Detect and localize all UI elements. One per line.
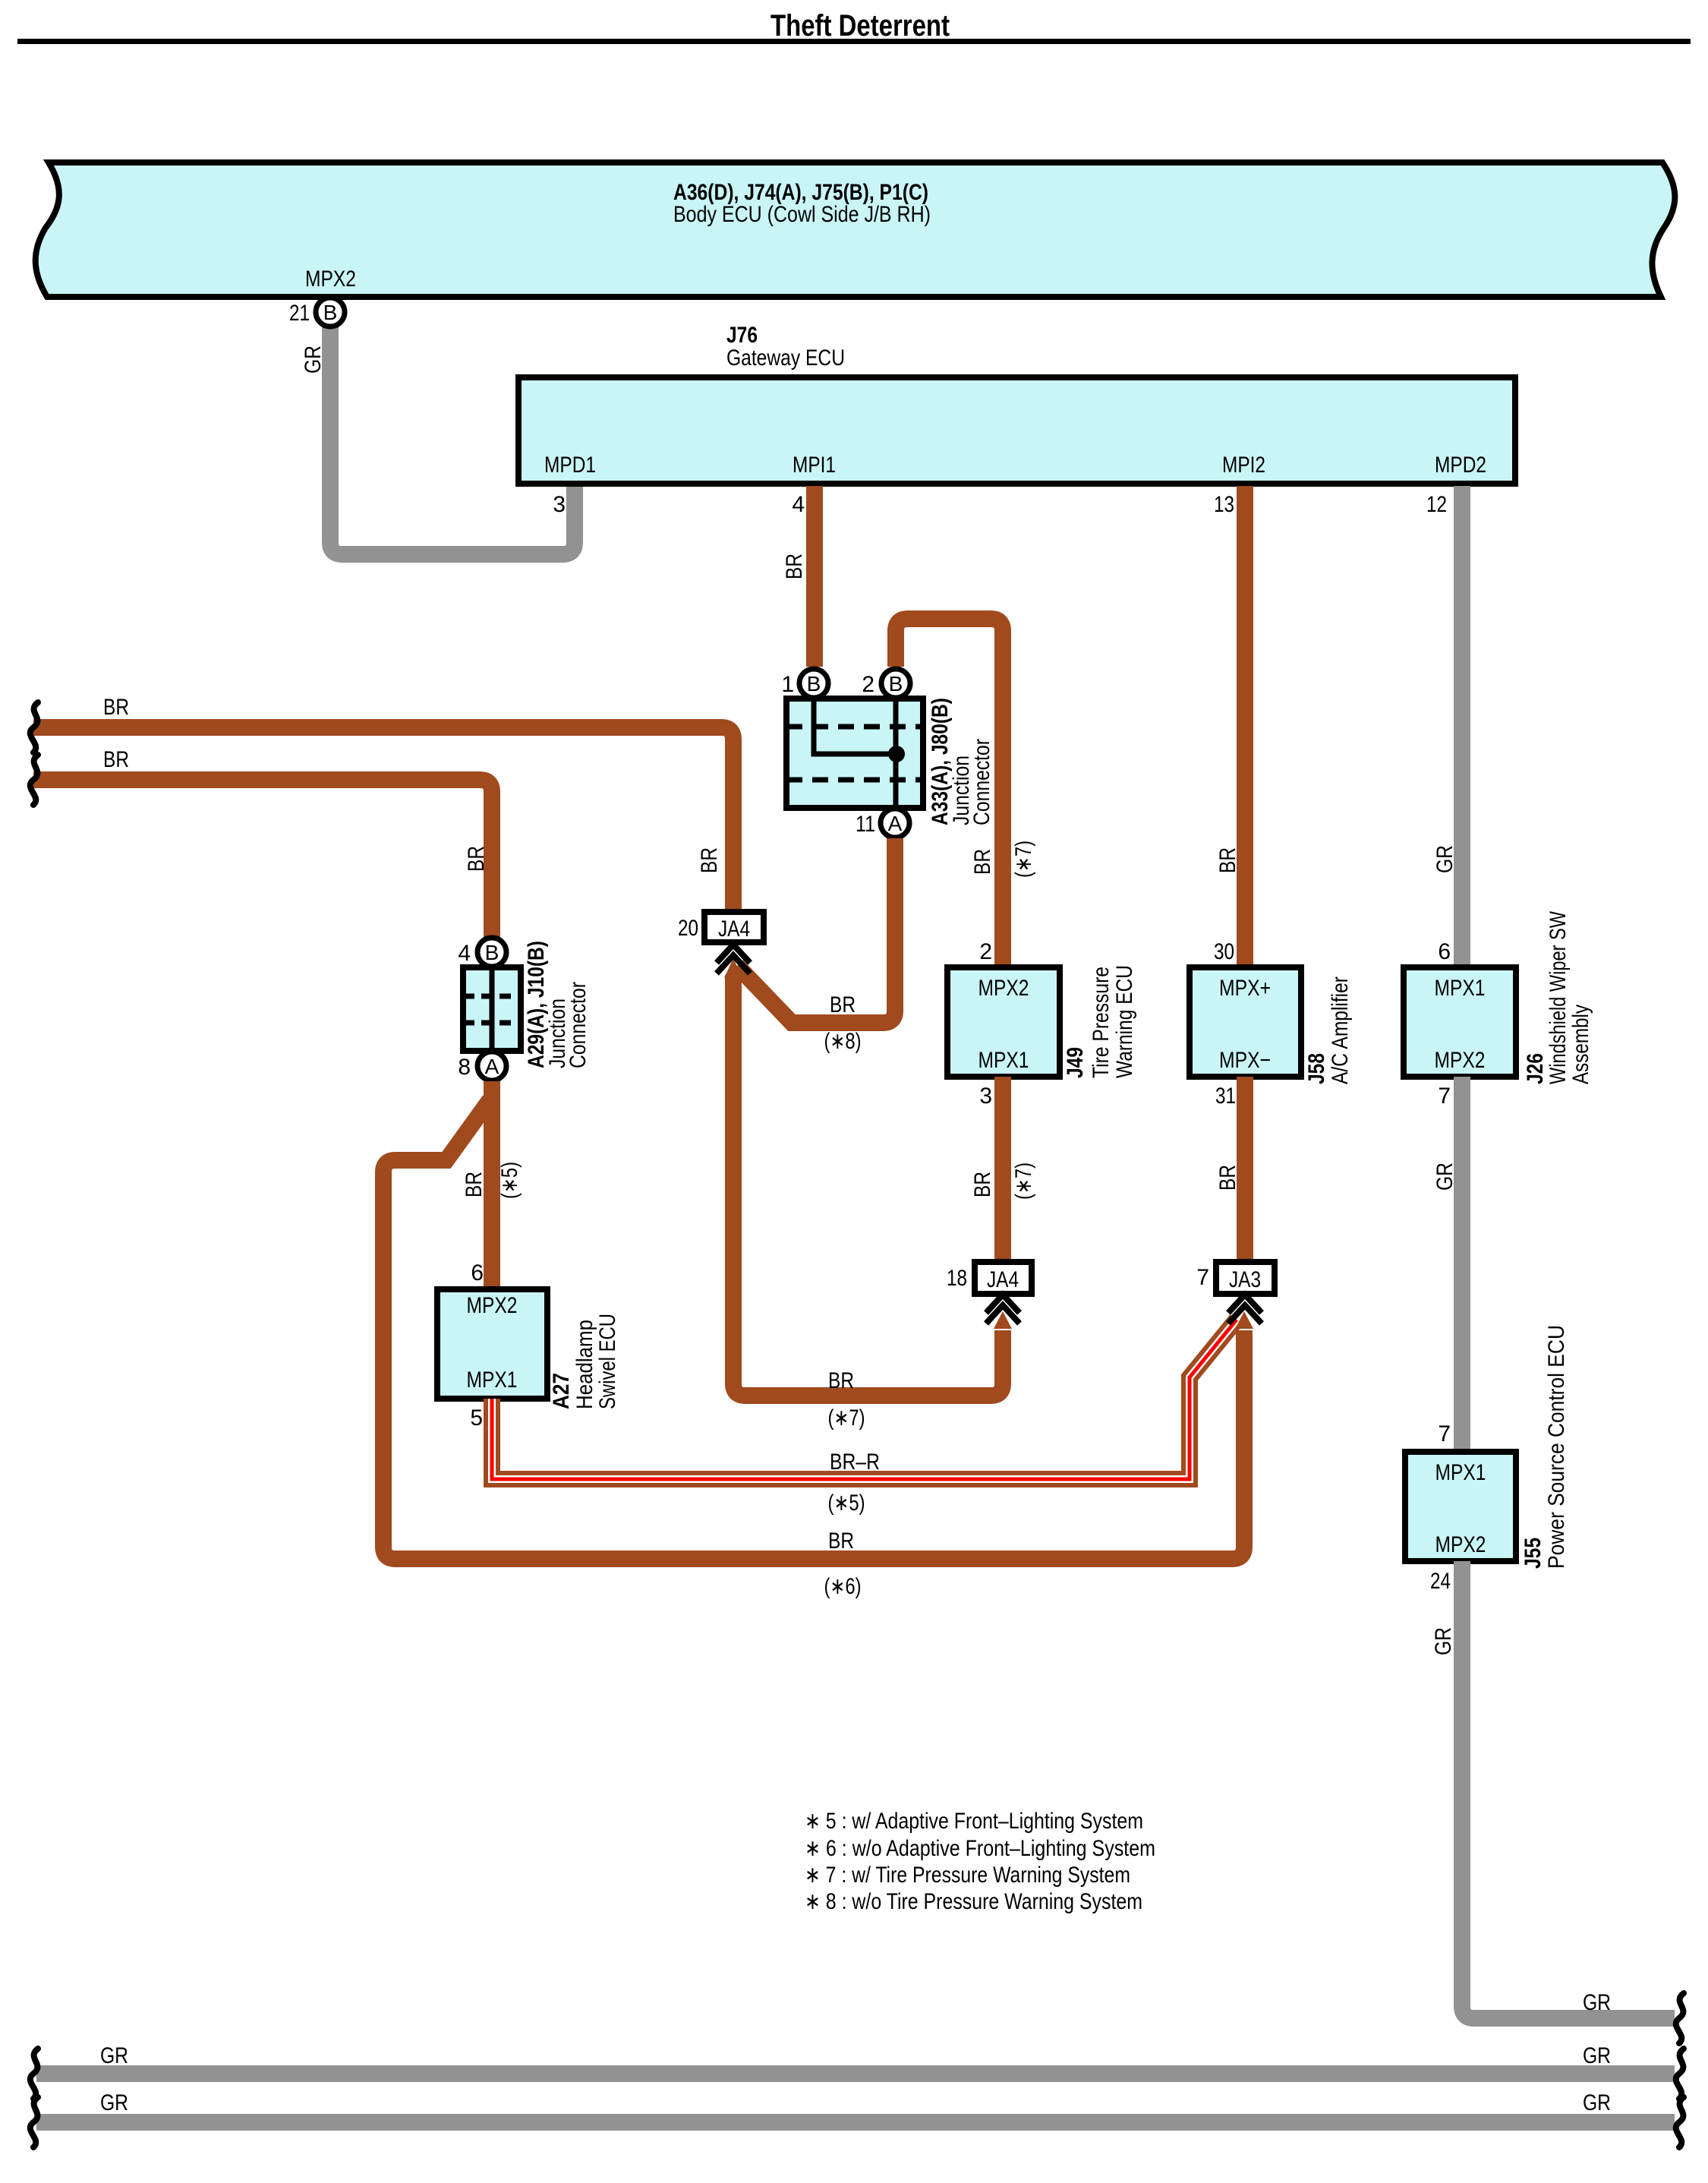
svg-text:J55: J55	[1520, 1538, 1546, 1569]
svg-text:MPD2: MPD2	[1435, 453, 1486, 478]
svg-text:(∗8): (∗8)	[824, 1029, 862, 1054]
svg-text:MPX1: MPX1	[1435, 1460, 1486, 1485]
svg-text:JA4: JA4	[987, 1267, 1019, 1292]
wire BR(*6) branch: diagonal from pin 8A wire, down left side, bottom run, up to JA3-7	[383, 1100, 1244, 1559]
svg-text:GR: GR	[301, 345, 326, 374]
svg-text:6: 6	[1438, 939, 1451, 964]
svg-text:MPX1: MPX1	[978, 1048, 1029, 1073]
wire BR from A33 pin 2B up-right-down to J49 pin 2	[896, 619, 1003, 967]
svg-text:BR: BR	[462, 1172, 487, 1197]
svg-text:∗ 8 : w/o Tire Pressure Warnin: ∗ 8 : w/o Tire Pressure Warning System	[805, 1889, 1142, 1914]
svg-text:MPX+: MPX+	[1219, 976, 1271, 1001]
svg-text:A27: A27	[549, 1373, 574, 1409]
svg-text:2: 2	[979, 939, 992, 964]
Tire Pressure Warning ECU J49	[947, 939, 1137, 1109]
svg-text:Gateway ECU: Gateway ECU	[726, 345, 845, 371]
wire BR(*8) from A33 pin 11A down-left to JA4-20 wire	[737, 838, 895, 1023]
svg-text:Assembly: Assembly	[1568, 1005, 1593, 1084]
svg-text:BR: BR	[1215, 1165, 1240, 1191]
wire BR from JA4-20 down and right up to JA4-18	[733, 975, 1003, 1396]
svg-text:MPI2: MPI2	[1222, 453, 1265, 478]
svg-text:1: 1	[781, 672, 794, 697]
svg-text:30: 30	[1214, 939, 1234, 964]
Headlamp Swivel ECU A27	[437, 1260, 620, 1431]
connector JA4 pin 18	[947, 1262, 1032, 1329]
svg-text:MPX2: MPX2	[305, 267, 356, 292]
wire BR-R from A27 pin 5 right and up to JA3-7	[492, 1320, 1237, 1516]
svg-text:4: 4	[792, 492, 805, 517]
svg-text:BR: BR	[782, 554, 807, 579]
svg-text:MPX2: MPX2	[467, 1293, 518, 1318]
svg-text:Warning ECU: Warning ECU	[1112, 965, 1137, 1078]
svg-text:JA3: JA3	[1229, 1267, 1261, 1292]
svg-text:(∗6): (∗6)	[824, 1574, 862, 1599]
svg-text:7: 7	[1438, 1084, 1451, 1109]
wire GR J26 pin 7 down to J55 pin 7	[1454, 1077, 1470, 1452]
svg-text:Connector: Connector	[969, 739, 994, 825]
svg-text:2: 2	[862, 672, 874, 697]
svg-text:MPX2: MPX2	[1435, 1048, 1486, 1073]
svg-text:7: 7	[1438, 1421, 1451, 1446]
wire GR J55 pin 24 down and right to edge	[1462, 1561, 1675, 2018]
svg-text:B: B	[807, 672, 821, 696]
Gateway ECU J76	[518, 323, 1515, 517]
svg-text:GR: GR	[1432, 845, 1457, 873]
wire BR Gateway pin 13 (MPI2) down to J58 pin 30	[1237, 486, 1253, 967]
svg-text:Theft Deterrent: Theft Deterrent	[770, 9, 950, 43]
svg-text:12: 12	[1426, 492, 1447, 517]
wire GR bottom bus 2	[36, 2114, 1675, 2131]
svg-text:MPX−: MPX−	[1219, 1048, 1271, 1073]
svg-text:(∗7): (∗7)	[828, 1405, 865, 1431]
svg-text:J49: J49	[1063, 1047, 1088, 1078]
svg-text:GR: GR	[1583, 2043, 1611, 2068]
svg-text:∗ 6 : w/o Adaptive Front–Light: ∗ 6 : w/o Adaptive Front–Lighting System	[805, 1836, 1155, 1861]
svg-text:A: A	[485, 1055, 499, 1078]
wire BR from A29 pin 8A down to A27 pin 6	[484, 1081, 500, 1289]
svg-text:BR: BR	[103, 695, 129, 720]
svg-text:∗ 7 : w/ Tire Pressure Warning: ∗ 7 : w/ Tire Pressure Warning System	[805, 1863, 1130, 1888]
svg-text:MPX1: MPX1	[467, 1368, 518, 1393]
Windshield Wiper SW Assembly J26	[1404, 910, 1593, 1109]
svg-text:Swivel ECU: Swivel ECU	[595, 1314, 620, 1409]
svg-text:GR: GR	[1583, 2090, 1611, 2115]
svg-text:BR: BR	[464, 846, 489, 872]
svg-text:JA4: JA4	[718, 916, 750, 942]
notes	[805, 1809, 1155, 1914]
svg-text:Connector: Connector	[566, 982, 591, 1068]
wire BR J58 pin 31 down to JA3-7	[1237, 1077, 1253, 1262]
wire break squiggles	[30, 702, 1684, 2147]
wire BR J49 pin 3 down to JA4-18	[994, 1077, 1011, 1262]
svg-text:BR: BR	[970, 1172, 995, 1197]
svg-text:GR: GR	[100, 2043, 128, 2068]
svg-text:GR: GR	[1583, 1990, 1611, 2015]
wire BR Gateway pin 4 (MPI1) down to A33 pin 1B	[806, 486, 823, 667]
svg-text:24: 24	[1430, 1569, 1451, 1594]
wire GR bottom bus 1	[36, 2065, 1675, 2082]
svg-text:BR: BR	[828, 1368, 854, 1393]
svg-text:MPX2: MPX2	[978, 976, 1029, 1001]
svg-text:J26: J26	[1523, 1053, 1548, 1084]
connector JA3 pin 7	[1196, 1262, 1275, 1412]
svg-text:31: 31	[1215, 1084, 1236, 1109]
svg-text:GR: GR	[1432, 1162, 1457, 1191]
svg-text:B: B	[485, 941, 499, 964]
svg-text:7: 7	[1196, 1265, 1209, 1290]
svg-text:3: 3	[553, 492, 566, 517]
svg-text:Windshield Wiper SW: Windshield Wiper SW	[1546, 910, 1571, 1084]
svg-text:13: 13	[1214, 492, 1234, 517]
pin 21 B of Body ECU	[289, 298, 345, 327]
svg-text:Tire Pressure: Tire Pressure	[1089, 967, 1114, 1078]
svg-text:MPI1: MPI1	[793, 453, 836, 478]
Body ECU A36(D), J74(A), J75(B), P1(C) (Cowl Side J/B RH)	[36, 162, 1675, 297]
svg-text:BR: BR	[1215, 847, 1240, 873]
svg-text:∗ 5 : w/ Adaptive Front–Lighti: ∗ 5 : w/ Adaptive Front–Lighting System	[805, 1809, 1143, 1834]
svg-text:B: B	[889, 672, 903, 696]
connector JA4 pin 20	[678, 912, 764, 978]
svg-text:Power Source Control ECU: Power Source Control ECU	[1544, 1325, 1569, 1569]
wire BR from left (break) to A29 pin 4B	[33, 780, 492, 939]
svg-text:(∗7): (∗7)	[1011, 1162, 1036, 1200]
svg-text:8: 8	[458, 1055, 471, 1080]
junction connector A29(A), J10(B)	[458, 938, 591, 1080]
svg-text:6: 6	[471, 1260, 484, 1286]
svg-text:21: 21	[289, 301, 310, 326]
svg-text:BR: BR	[828, 1528, 854, 1554]
wire GR from Body ECU pin 21B to Gateway pin 3	[330, 323, 575, 554]
svg-text:3: 3	[979, 1084, 992, 1109]
svg-text:5: 5	[470, 1405, 483, 1431]
wire GR Gateway pin 12 (MPD2) down to J26 pin 6	[1454, 486, 1470, 967]
svg-text:BR–R: BR–R	[830, 1450, 880, 1475]
svg-text:4: 4	[458, 941, 471, 966]
svg-text:J58: J58	[1304, 1053, 1329, 1084]
svg-text:BR: BR	[697, 847, 722, 873]
Power Source Control ECU J55	[1405, 1325, 1569, 1594]
svg-text:B: B	[323, 301, 338, 324]
svg-text:BR: BR	[830, 992, 856, 1017]
svg-text:A: A	[888, 812, 903, 835]
svg-text:(∗5): (∗5)	[497, 1162, 522, 1199]
svg-text:A/C Amplifier: A/C Amplifier	[1328, 976, 1353, 1084]
svg-text:MPX1: MPX1	[1435, 976, 1486, 1001]
svg-text:MPX2: MPX2	[1435, 1532, 1486, 1557]
svg-text:BR: BR	[970, 849, 995, 875]
wire BR from left (break) to JA4-20	[33, 727, 733, 912]
svg-text:GR: GR	[100, 2090, 128, 2115]
svg-text:18: 18	[947, 1266, 967, 1291]
title rule	[17, 39, 1691, 44]
svg-text:GR: GR	[1431, 1627, 1456, 1655]
A/C Amplifier J58	[1190, 939, 1353, 1109]
svg-text:(∗5): (∗5)	[828, 1491, 865, 1516]
svg-text:(∗7): (∗7)	[1011, 841, 1036, 878]
svg-text:11: 11	[856, 812, 875, 837]
svg-text:BR: BR	[103, 747, 129, 772]
svg-text:Body ECU (Cowl Side J/B RH): Body ECU (Cowl Side J/B RH)	[673, 202, 931, 227]
svg-text:20: 20	[678, 916, 698, 941]
junction connector A33(A), J80(B)	[781, 669, 994, 838]
svg-text:J76: J76	[726, 323, 758, 348]
svg-text:MPD1: MPD1	[544, 453, 596, 478]
svg-text:Headlamp: Headlamp	[572, 1320, 597, 1409]
